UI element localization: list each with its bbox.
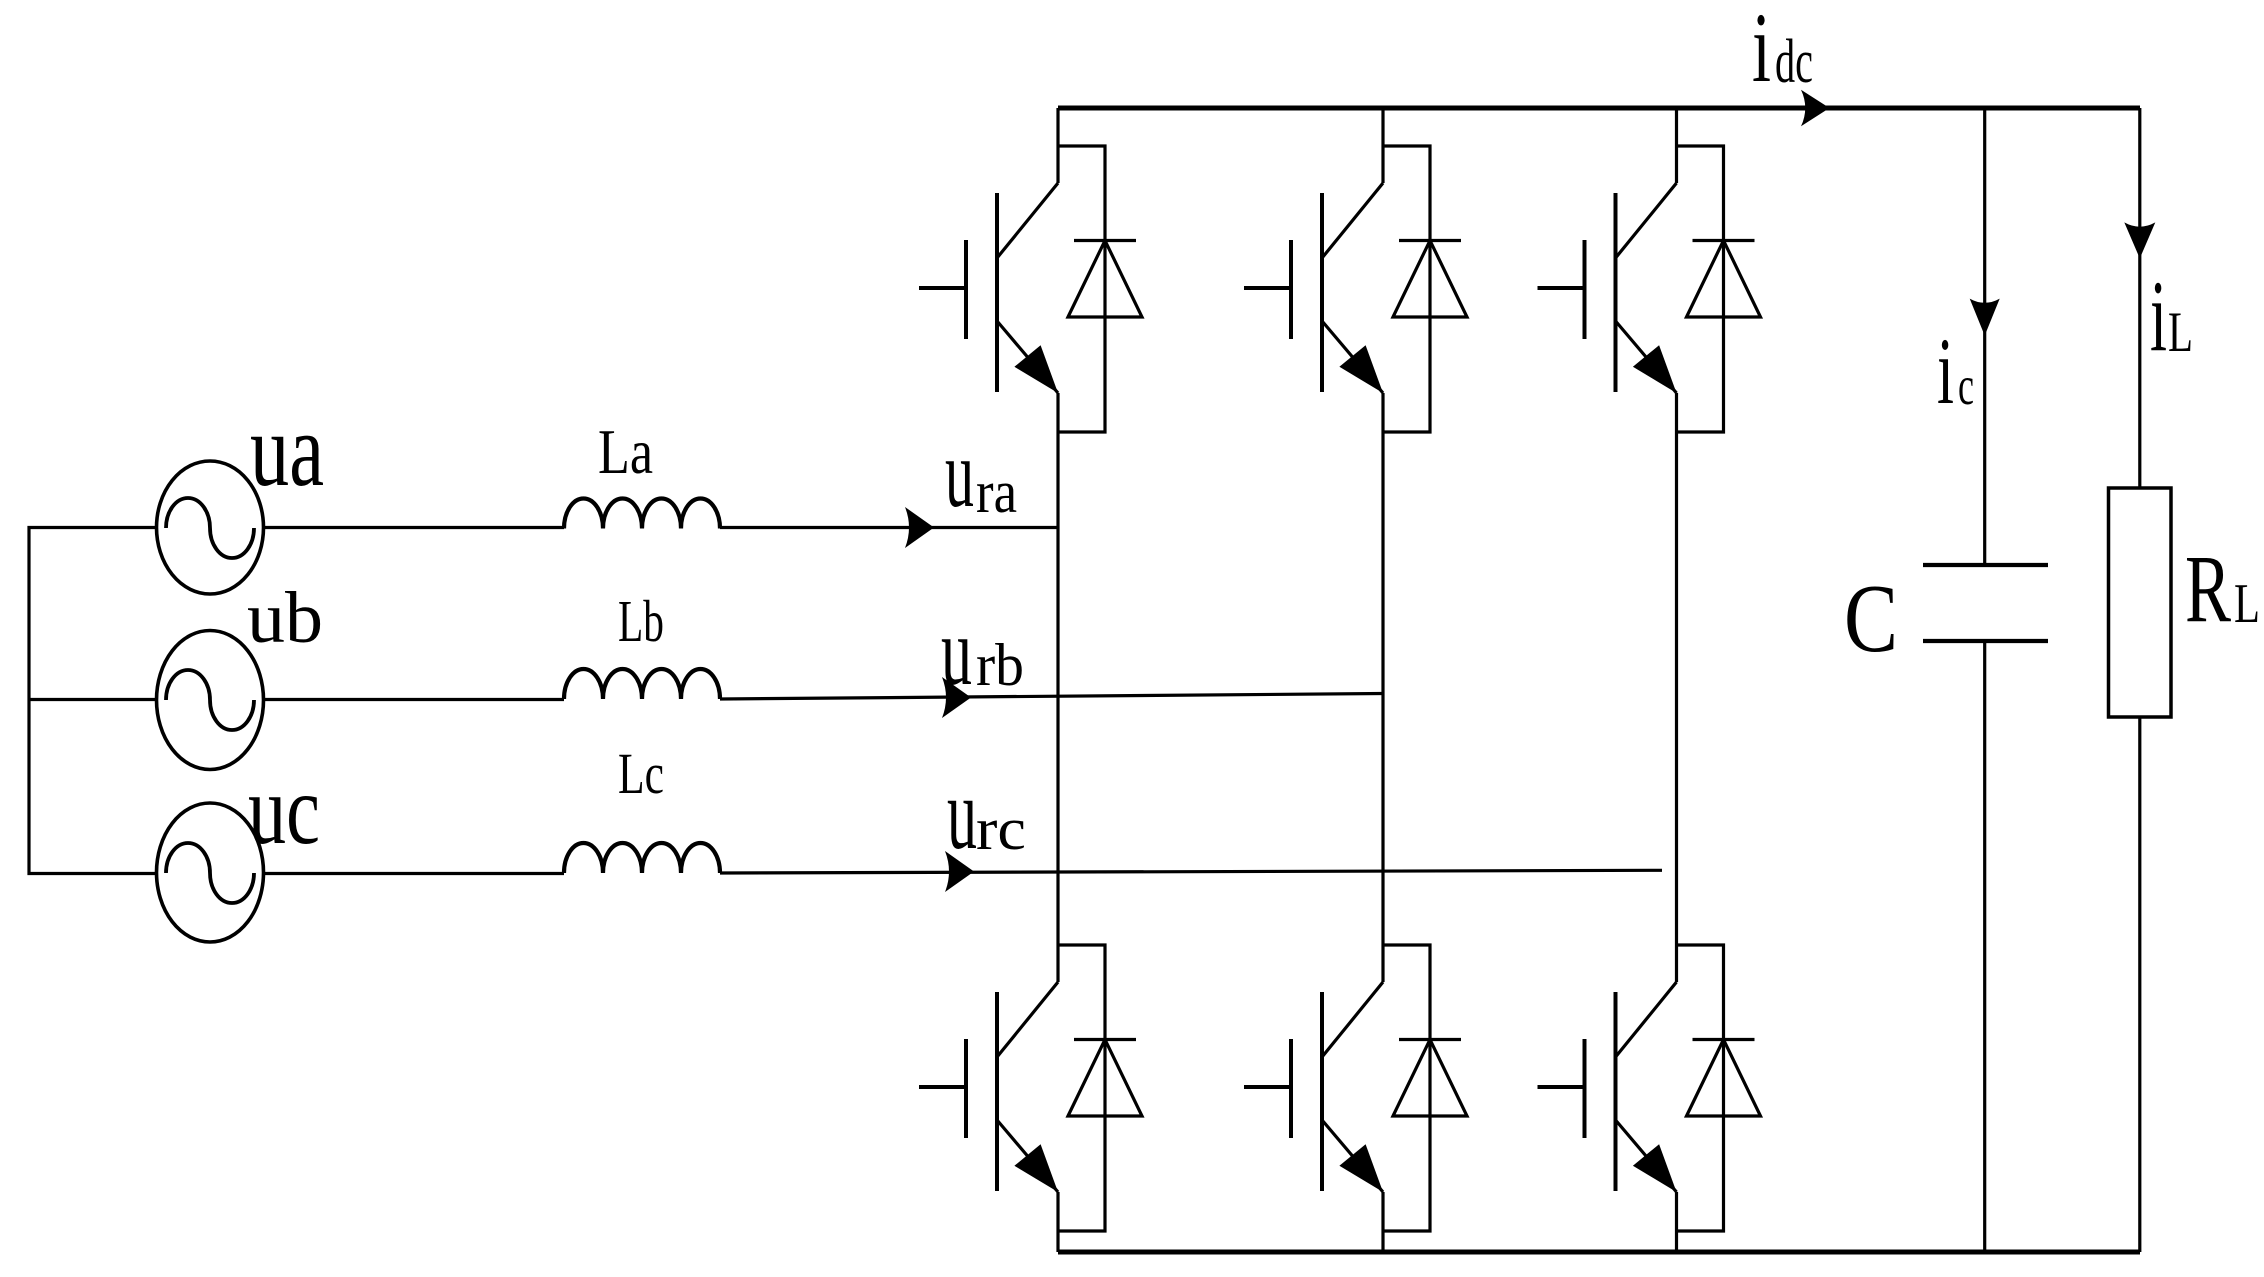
IGBT Q1 gate bar [964,240,968,339]
wire capacitor branch upper [1983,108,1986,565]
source uc [157,803,264,942]
wire top DC bus [1058,106,2140,111]
wire capacitor branch lower [1983,641,1986,1252]
IGBT Q5 emitter diagonal [1616,321,1677,393]
svg-text:L: L [2234,573,2260,635]
label ura [945,420,1017,528]
IGBT Q6 body bar [1614,992,1618,1191]
IGBT Q1 body bar [995,193,999,392]
svg-text:Lb: Lb [618,588,664,654]
svg-text:i: i [2150,260,2167,373]
arrow ic [1970,299,2000,336]
diode D5 cathode bar [1693,239,1755,242]
label RL [2185,535,2260,642]
svg-text:rb: rb [976,632,1024,698]
wire load branch upper [2138,108,2141,488]
label urc [947,757,1026,871]
IGBT Q6 gate lead [1538,1085,1585,1089]
wire diode branch loop Q2/D2 [1058,945,1105,1231]
wire left neutral bus [29,528,155,874]
wire leg a bottom segment [1056,1192,1059,1252]
diode D5 triangle [1687,241,1761,318]
diode D2 triangle [1068,1040,1142,1117]
wire leg c bottom segment [1675,1192,1678,1252]
wire phase b: bus to source [29,698,155,701]
diode D6 cathode bar [1693,1038,1755,1041]
IGBT Q2 gate bar [964,1039,968,1138]
diode D2 cathode bar [1074,1038,1136,1041]
IGBT Q4 emitter diagonal [1322,1120,1383,1192]
wire leg b bottom segment [1381,1192,1384,1252]
diode D6 triangle [1687,1040,1761,1117]
wire load branch lower [2138,717,2141,1252]
IGBT Q3 collector diagonal [1322,183,1383,258]
IGBT Q4 collector diagonal [1322,982,1383,1057]
IGBT Q4 gate lead [1244,1085,1291,1089]
wire leg a middle segment [1056,393,1059,982]
label urb [941,598,1024,706]
wire diode branch loop Q6/D6 [1677,945,1724,1231]
IGBT Q3 body bar [1320,193,1324,392]
IGBT Q1 gate lead [919,286,966,290]
arrow urb [942,677,971,718]
IGBT Q3 gate bar [1289,240,1293,339]
arrow urc [945,851,974,892]
IGBT Q2 collector diagonal [997,982,1058,1057]
svg-text:dc: dc [1775,28,1813,96]
svg-text:L: L [2168,301,2193,364]
IGBT Q2 emitter arrow [1014,1144,1058,1192]
IGBT Q1 emitter arrow [1014,345,1058,393]
resistor RL [2109,488,2172,717]
svg-text:C: C [1844,565,1898,673]
wire diode branch loop Q4/D4 [1383,945,1430,1231]
arrow idc [1801,90,1830,127]
IGBT Q5 gate bar [1583,240,1587,339]
IGBT Q5 gate lead [1538,286,1585,290]
label iL [2150,260,2193,373]
IGBT Q3 gate lead [1244,286,1291,290]
svg-text:u: u [947,757,977,871]
svg-text:u: u [941,598,972,706]
wire leg c middle segment [1675,393,1678,982]
arrow iL [2124,222,2155,258]
diode D1 cathode bar [1074,239,1136,242]
svg-text:i: i [1937,318,1954,424]
source ub [157,631,264,770]
IGBT Q6 gate bar [1583,1039,1587,1138]
capacitor C [1923,565,2048,641]
inductor Lc [564,843,720,873]
IGBT Q4 gate bar [1289,1039,1293,1138]
diode D1 triangle [1068,241,1142,318]
IGBT Q6 emitter diagonal [1616,1120,1677,1192]
source ua [157,461,264,594]
svg-text:ra: ra [976,459,1017,525]
IGBT Q4 emitter arrow [1339,1144,1383,1192]
inductor La [564,499,720,529]
wire leg c top segment [1675,108,1678,183]
IGBT Q5 body bar [1614,193,1618,392]
IGBT Q5 emitter arrow [1633,345,1677,393]
wire phase b: inductor to leg 2 [720,694,1383,700]
svg-text:rc: rc [976,796,1026,862]
IGBT Q1 collector diagonal [997,183,1058,258]
wire diode branch loop Q5/D5 [1677,146,1724,432]
label ic [1937,318,1974,424]
IGBT Q2 emitter diagonal [997,1120,1058,1192]
wire diode branch loop Q1/D1 [1058,146,1105,432]
diode D4 cathode bar [1399,1038,1461,1041]
wire leg b top segment [1381,108,1384,183]
label idc [1752,0,1813,103]
wire phase b: source to inductor [265,698,564,701]
svg-text:Lc: Lc [618,741,664,806]
svg-text:u: u [945,420,974,528]
IGBT Q3 emitter arrow [1339,345,1383,393]
svg-text:ub: ub [247,577,323,658]
wire leg b middle segment [1381,393,1384,982]
wire phase a: source to inductor [265,526,564,529]
wire phase c: source to inductor [265,872,564,875]
IGBT Q4 body bar [1320,992,1324,1191]
diode D3 cathode bar [1399,239,1461,242]
svg-text:R: R [2185,535,2231,642]
inductor Lb [564,669,720,699]
wire diode branch loop Q3/D3 [1383,146,1430,432]
wire leg a top segment [1056,108,1059,183]
IGBT Q2 body bar [995,992,999,1191]
IGBT Q2 gate lead [919,1085,966,1089]
IGBT Q1 emitter diagonal [997,321,1058,393]
IGBT Q5 collector diagonal [1616,183,1677,258]
IGBT Q6 emitter arrow [1633,1144,1677,1192]
arrow ura [905,507,934,548]
wire phase a: inductor to leg 1 [720,526,1058,529]
svg-text:c: c [1958,355,1974,416]
IGBT Q3 emitter diagonal [1322,321,1383,393]
svg-text:ua: ua [250,391,324,508]
svg-text:La: La [598,417,653,487]
diode D4 triangle [1393,1040,1467,1117]
wire bottom DC bus [1058,1250,2140,1255]
svg-text:i: i [1752,0,1771,103]
svg-text:uc: uc [248,754,320,865]
diode D3 triangle [1393,241,1467,318]
wire phase c: inductor toward leg 3 (ends short of leg) [720,870,1662,873]
IGBT Q6 collector diagonal [1616,982,1677,1057]
